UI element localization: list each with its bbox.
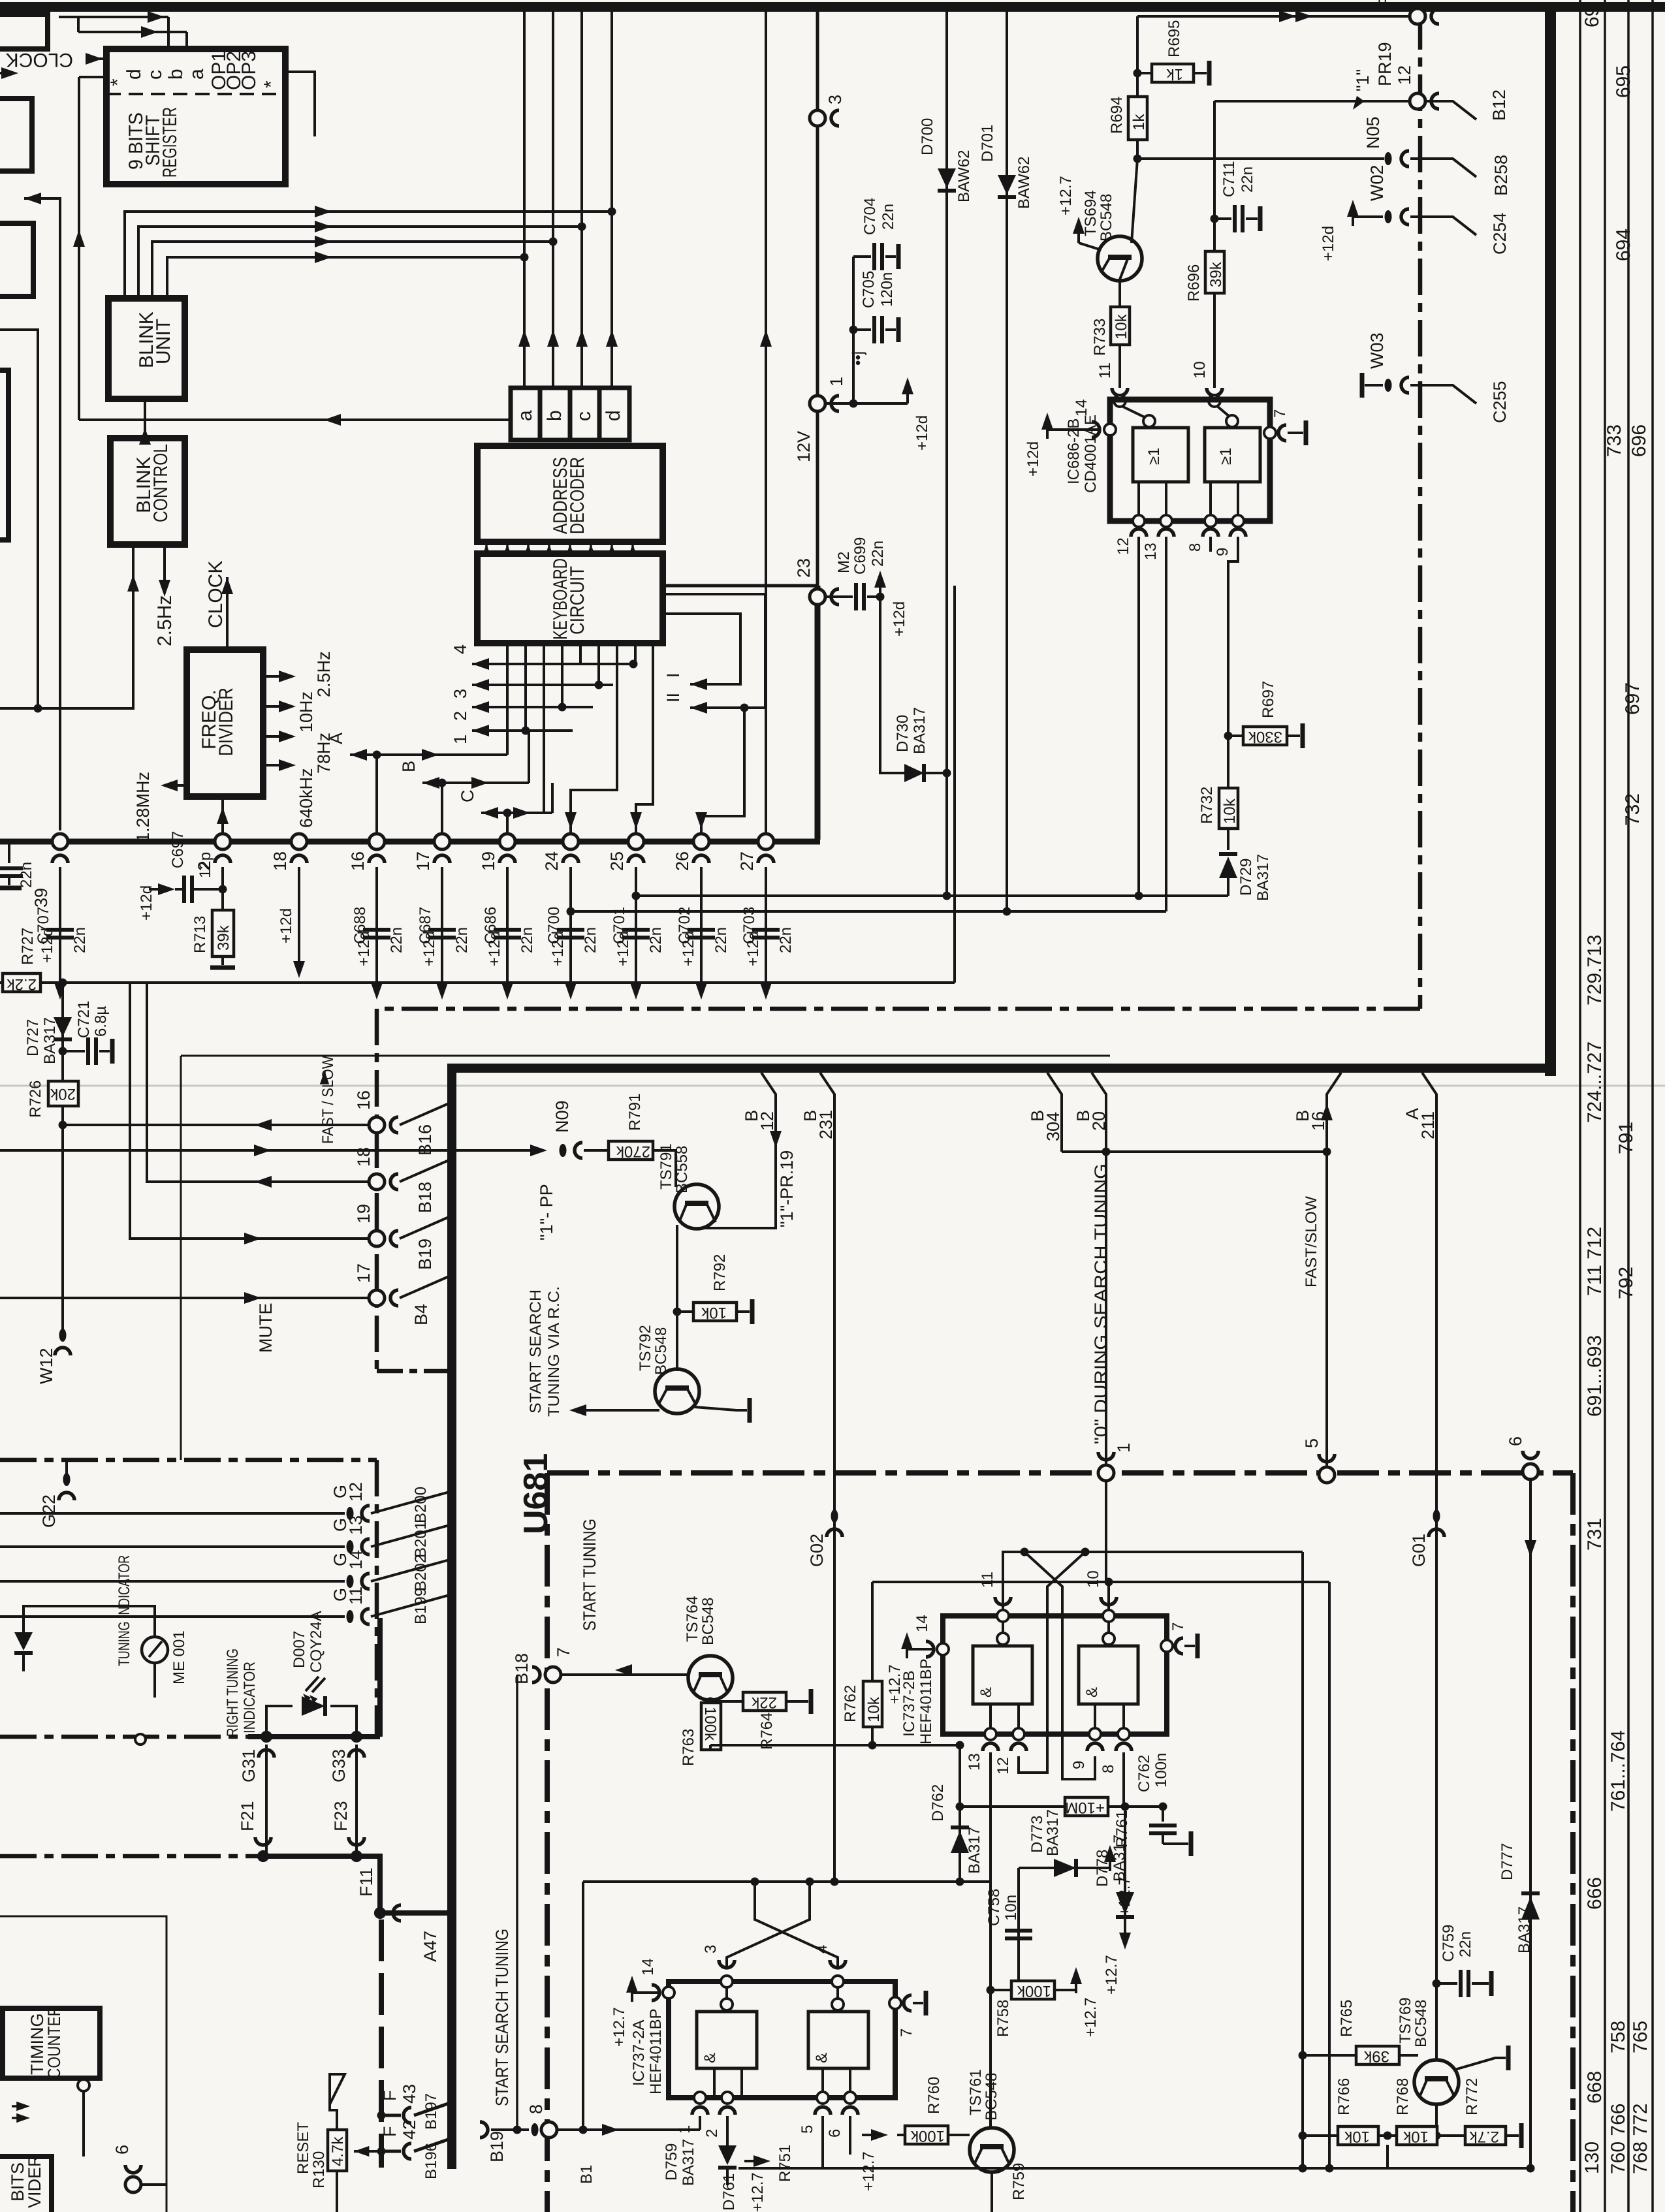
svg-text:22n: 22n — [1239, 166, 1256, 193]
svg-text:a: a — [515, 410, 536, 421]
connector F43 — [377, 2111, 386, 2120]
svg-text:696: 696 — [1628, 424, 1650, 457]
svg-text:DIVIDER: DIVIDER — [215, 687, 237, 756]
a line to top edge — [523, 12, 526, 388]
svg-text:+12.7: +12.7 — [1103, 1955, 1120, 1995]
svg-text:C707: C707 — [35, 907, 52, 944]
svg-text:*: * — [261, 80, 282, 88]
svg-text:BA317: BA317 — [911, 707, 928, 754]
svg-text:MUTE: MUTE — [256, 1303, 276, 1353]
svg-text:FAST / SLOW: FAST / SLOW — [319, 1056, 337, 1144]
svg-text:M2: M2 — [835, 552, 853, 573]
wire — [167, 17, 170, 49]
svg-text:BA317: BA317 — [966, 1827, 983, 1874]
svg-text:25: 25 — [607, 851, 627, 871]
pin 1 — [694, 2092, 706, 2104]
svg-text:12: 12 — [346, 1482, 366, 1502]
d line to top edge — [610, 12, 613, 388]
bits divider box (partial) — [0, 2157, 52, 2212]
blink unit box — [108, 298, 185, 399]
heavy wire F21-F23 — [263, 1854, 357, 1859]
module boundary dash-dot vertical x577 — [375, 1009, 379, 1373]
svg-text:TUNING VIA R.C.: TUNING VIA R.C. — [545, 1286, 563, 1417]
svg-text:REGISTER: REGISTER — [159, 107, 181, 178]
shift register U: 9 BITS SHIFT REGISTER — [106, 49, 285, 184]
svg-text:13: 13 — [966, 1753, 983, 1771]
svg-text:22n: 22n — [712, 927, 730, 953]
svg-text:2.2k: 2.2k — [7, 975, 37, 993]
key row 1 — [472, 729, 573, 732]
resistor R726 20k — [48, 1081, 78, 1106]
clock arrowhead — [86, 53, 103, 65]
svg-text:10k: 10k — [701, 1304, 727, 1321]
pin 9 — [1089, 1728, 1101, 1740]
wire G13 — [0, 1545, 345, 1548]
resistor R695 1k — [1137, 72, 1152, 74]
svg-text:130: 130 — [1581, 2141, 1603, 2174]
svg-text:≥1: ≥1 — [1145, 447, 1163, 465]
LED D007 CQY24A wire — [266, 1706, 293, 1737]
svg-text:D759: D759 — [663, 2143, 680, 2181]
connector G22 — [65, 1460, 68, 1474]
svg-text:8: 8 — [1100, 1765, 1117, 1773]
dual LED tuning indicator — [14, 1632, 33, 1651]
svg-text:7: 7 — [554, 1647, 573, 1657]
svg-text:R763: R763 — [680, 1729, 697, 1766]
wire — [152, 242, 553, 298]
emitter wire down — [676, 1225, 678, 1371]
svg-text:BC548: BC548 — [983, 2073, 1000, 2121]
svg-text:CQY24A: CQY24A — [308, 1611, 325, 1673]
svg-text:B18: B18 — [512, 1653, 531, 1684]
svg-text:4: 4 — [451, 644, 470, 654]
diode D701 BAW62 — [998, 175, 1016, 195]
svg-text:I: I — [663, 672, 683, 678]
svg-text:304: 304 — [1043, 1112, 1063, 1141]
module frame thin line — [181, 1055, 1110, 1057]
svg-text:D701: D701 — [979, 125, 996, 162]
border: top thick line — [0, 2, 1665, 12]
svg-text:7: 7 — [1271, 409, 1289, 418]
resistor R727 2.2k — [3, 973, 40, 992]
NAND gate 1 — [697, 2012, 757, 2068]
svg-text:B197: B197 — [422, 2093, 440, 2130]
capacitor C697 12p and R713 — [221, 867, 224, 910]
pin 11 riser and top rail — [1003, 1552, 1303, 1610]
svg-text:R733: R733 — [1091, 319, 1109, 356]
pin 14 +12.7 — [901, 1632, 913, 1658]
svg-text:+12.7: +12.7 — [749, 2172, 767, 2212]
svg-text:22k: 22k — [751, 1694, 777, 1711]
svg-text:2: 2 — [703, 2129, 721, 2138]
svg-text:724...727: 724...727 — [1584, 1041, 1606, 1123]
cross wire pin4 — [727, 1882, 810, 1967]
bottom rail y3321 — [738, 2167, 1529, 2170]
svg-text:12: 12 — [994, 1757, 1012, 1775]
capacitor C703 — [765, 867, 767, 975]
svg-text:UNIT: UNIT — [153, 319, 174, 364]
svg-text:F11: F11 — [357, 1867, 376, 1897]
svg-text:A47: A47 — [420, 1931, 440, 1962]
svg-text:B4: B4 — [411, 1304, 431, 1325]
svg-text:BC548: BC548 — [1098, 194, 1115, 242]
svg-text:+10M: +10M — [1065, 1799, 1105, 1816]
svg-text:R772: R772 — [1463, 2078, 1481, 2115]
resistor R791 270k — [584, 1149, 609, 1152]
svg-text:732: 732 — [1622, 793, 1643, 826]
svg-text:668: 668 — [1584, 2071, 1606, 2104]
svg-text:HEF4011BP: HEF4011BP — [917, 1658, 935, 1745]
NOR gate 1 — [1133, 428, 1188, 482]
wire into shift register top b — [78, 31, 187, 33]
svg-text:12V: 12V — [794, 431, 814, 462]
capacitor C704 22n — [853, 255, 871, 258]
svg-text:••j: ••j — [849, 351, 867, 366]
svg-text:9: 9 — [1214, 548, 1231, 556]
boundary dash-dot x577 down — [375, 1460, 379, 1737]
pin8 stub — [1209, 537, 1212, 552]
svg-text:1: 1 — [676, 2125, 693, 2134]
key row 4 — [472, 663, 633, 665]
pin 11 connector — [1112, 388, 1128, 396]
resistor R772 2.7k — [1437, 2134, 1465, 2137]
wire from B18 conn down to B19 node — [516, 1675, 518, 2130]
wire 17 MUTE — [0, 1297, 370, 1299]
blink control bottom-left wire — [0, 545, 133, 708]
svg-text:BA317: BA317 — [1254, 854, 1272, 901]
svg-text:270k: 270k — [616, 1143, 650, 1160]
svg-text:13: 13 — [1142, 543, 1160, 560]
svg-text:+12d: +12d — [138, 885, 155, 921]
svg-text:6.8µ: 6.8µ — [92, 1006, 110, 1037]
svg-text:TS769: TS769 — [1397, 1997, 1414, 2044]
svg-text:TS694: TS694 — [1082, 190, 1100, 236]
counter output pin — [78, 2079, 89, 2091]
connector 1 (12V) — [810, 396, 825, 411]
svg-text:+12.7: +12.7 — [1116, 1876, 1134, 1916]
wire — [167, 257, 524, 298]
bus connector 16 — [369, 834, 385, 849]
freq divider box — [187, 650, 263, 797]
svg-text:22n: 22n — [869, 541, 887, 567]
svg-text:39k: 39k — [215, 924, 232, 951]
diode D777 BA317 — [1521, 1897, 1540, 1920]
wire top to conn5 with double arrow — [1137, 15, 1410, 18]
ruling column line 2 — [1604, 0, 1606, 2212]
gate output wires — [713, 2068, 716, 2098]
wire C to bus 19 — [506, 813, 509, 834]
R696 / PR19 line — [1214, 100, 1410, 103]
svg-text:W12: W12 — [37, 1348, 56, 1384]
emitter ground — [694, 1407, 747, 1410]
wire G12 — [0, 1512, 345, 1515]
wire 19 — [130, 983, 370, 1239]
long vertical from cross rail — [1328, 1582, 1331, 2168]
thick segment to bus — [815, 586, 821, 840]
svg-text:D007: D007 — [291, 1631, 308, 1668]
svg-text:+12.7: +12.7 — [1082, 1997, 1100, 2037]
svg-text:+12.7: +12.7 — [860, 2151, 878, 2191]
wire G11 — [0, 1615, 345, 1618]
address decoder box — [477, 446, 663, 542]
base feed wire y2673 — [710, 1744, 960, 1746]
arrows between blocks — [16, 2102, 30, 2111]
svg-text:B202: B202 — [412, 1555, 430, 1591]
wire y1378 — [636, 894, 1228, 897]
svg-text:R732: R732 — [1198, 787, 1216, 824]
capacitor C701 — [635, 867, 637, 975]
wire up to C704/C705 — [852, 257, 855, 403]
bus connector 26 — [693, 834, 709, 849]
cap C706 at left edge — [8, 842, 10, 863]
svg-text:22n: 22n — [518, 927, 536, 953]
svg-text:D729: D729 — [1237, 859, 1255, 896]
pin 9 — [1232, 515, 1244, 527]
svg-text:D773: D773 — [1028, 1816, 1046, 1853]
transistor TS764 BC548 — [688, 1656, 733, 1700]
ruling column line 1 — [1579, 0, 1581, 2212]
svg-text:R766: R766 — [1335, 2078, 1353, 2115]
svg-text:120n: 120n — [878, 272, 896, 307]
connector G01 — [1433, 1509, 1440, 1523]
svg-text:b: b — [165, 69, 187, 80]
gate output wires — [989, 1704, 992, 1734]
svg-text:R130: R130 — [310, 2151, 328, 2188]
svg-text:IC686-2B: IC686-2B — [1065, 419, 1083, 484]
svg-text:3: 3 — [451, 689, 470, 699]
svg-text:10k: 10k — [865, 1696, 883, 1722]
svg-text:+12d: +12d — [913, 415, 931, 450]
blink control bottom 2.5Hz output — [163, 545, 166, 586]
sub-module thin frame — [0, 1916, 166, 2212]
blink unit bottom stub — [144, 399, 146, 420]
pin 5 — [817, 2092, 829, 2104]
ruling column line 4 — [1651, 0, 1654, 2212]
blink control box — [110, 438, 185, 545]
box (partial, top left corner) — [0, 14, 48, 49]
svg-text:G31: G31 — [239, 1749, 259, 1782]
svg-text:10Hz: 10Hz — [296, 691, 316, 733]
diode D773 BA317 — [1019, 1867, 1110, 1869]
connector 12 — [1410, 93, 1425, 109]
wire conn6 down — [1529, 1479, 1532, 2168]
svg-text:R727: R727 — [19, 928, 37, 965]
svg-text:BC558: BC558 — [673, 1146, 691, 1193]
svg-text:10: 10 — [1191, 361, 1209, 379]
connector G31 — [261, 1731, 272, 1743]
boundary dash-dot y2660 — [0, 1735, 380, 1739]
diode D762 BA317 — [959, 1745, 961, 1882]
meter ME 001 — [142, 1637, 168, 1663]
drop B20 to U681 pin1 — [1092, 1073, 1106, 1466]
resistor R763 100k — [701, 1703, 721, 1750]
NAND gate 1 — [973, 1646, 1032, 1704]
pin 10 riser — [1107, 1582, 1110, 1610]
svg-text:43: 43 — [400, 2084, 419, 2104]
capacitor C699 22n — [825, 595, 853, 598]
svg-text:9: 9 — [1070, 1761, 1088, 1769]
svg-text:C688: C688 — [351, 907, 369, 944]
conn1 wire joins rail — [1105, 1480, 1107, 1582]
svg-text:22n: 22n — [388, 927, 405, 953]
svg-text:10k: 10k — [1113, 313, 1130, 340]
wire vertical x121 with up arrow — [79, 76, 106, 78]
svg-text:G22: G22 — [39, 1494, 59, 1528]
+12d rail wire — [0, 981, 955, 984]
wire conn12 to cable B12 — [1425, 101, 1476, 119]
matrix column wires from keyboard bottom — [506, 643, 509, 755]
c line to top edge — [580, 12, 583, 388]
resistor R732 10k — [1219, 788, 1238, 829]
svg-text:39k: 39k — [1207, 261, 1225, 287]
resistor R762 10k — [871, 1582, 874, 1681]
IC737-2A box — [669, 1982, 895, 2098]
D701 line from top — [1006, 12, 1008, 911]
cross wire pin3 — [755, 1882, 838, 1967]
svg-text:695: 695 — [1613, 65, 1634, 98]
svg-text:C758: C758 — [985, 1889, 1003, 1926]
resistor R760 100k — [862, 2129, 888, 2141]
pin 12 — [1013, 1728, 1024, 1740]
connector F11 — [374, 1907, 386, 1919]
svg-text:B: B — [399, 761, 419, 772]
svg-text:6: 6 — [826, 2129, 844, 2138]
wire 18 to +12d — [298, 867, 300, 953]
svg-text:C762: C762 — [1135, 1755, 1153, 1792]
connector W02 with +12d — [1347, 200, 1359, 226]
svg-text:C721: C721 — [75, 1001, 93, 1038]
wire B to bus 17 — [441, 783, 443, 834]
base wire into pin1 — [583, 2128, 700, 2131]
wire y1764 mute/fastslow feed — [0, 1149, 542, 1152]
svg-text:1: 1 — [1114, 1443, 1134, 1453]
svg-text:II: II — [663, 693, 683, 703]
svg-text:D762: D762 — [929, 1784, 947, 1822]
resistor R697 330k — [1224, 732, 1233, 740]
svg-text:100k: 100k — [1017, 1982, 1051, 2000]
transistor TS791 BC558 — [674, 1184, 719, 1229]
RESET flag — [330, 2074, 345, 2104]
CLOCK output of freq divider — [226, 577, 229, 650]
resistor R761 +10M — [960, 1805, 1065, 1808]
wire with arrow from left edge — [0, 72, 12, 74]
svg-text:23: 23 — [794, 558, 814, 578]
drop B16 FAST/SLOW to conn5(U681) — [1327, 1073, 1341, 1468]
svg-text:+12d: +12d — [1320, 226, 1337, 261]
module boundary dash-dot vertical x2175 — [1418, 13, 1423, 1009]
svg-text:16: 16 — [1308, 1111, 1328, 1131]
svg-text:&: & — [701, 2053, 719, 2063]
svg-text:B258: B258 — [1491, 155, 1511, 196]
svg-text:22n: 22n — [1457, 1931, 1474, 1957]
svg-text:1: 1 — [827, 377, 846, 387]
svg-text:G33: G33 — [329, 1749, 349, 1782]
svg-text:18: 18 — [354, 1147, 373, 1167]
svg-text:IC737-2A: IC737-2A — [630, 2020, 648, 2086]
module boundary dash-dot horizontal y1545 — [377, 1007, 1420, 1011]
wire — [138, 227, 582, 298]
1.28MHz output left — [166, 784, 187, 787]
key group line I — [663, 614, 740, 684]
transistor TS694 BC548 — [1098, 236, 1142, 281]
svg-text:RESET: RESET — [294, 2122, 312, 2174]
svg-text:R713: R713 — [191, 916, 209, 953]
svg-text:TS792: TS792 — [637, 1325, 654, 1371]
svg-text:R792: R792 — [711, 1254, 729, 1291]
resistor R130 4.7k — [328, 2130, 347, 2171]
svg-text:+12.7: +12.7 — [886, 1664, 904, 1704]
gate output wires — [1137, 482, 1140, 521]
svg-text:+12d: +12d — [1024, 441, 1042, 477]
svg-text:OP3: OP3 — [238, 51, 260, 90]
capacitor C758 10n — [1017, 1868, 1020, 1990]
svg-text:7: 7 — [898, 2029, 915, 2037]
resistor R758 100k — [987, 1986, 995, 1995]
key group line II — [663, 594, 765, 708]
heavy wire G31-G33 segment — [248, 1734, 380, 1739]
pin 8 — [1118, 1728, 1130, 1740]
svg-text:22n: 22n — [880, 204, 897, 230]
svg-text:11: 11 — [979, 1572, 996, 1588]
svg-text:13: 13 — [346, 1515, 366, 1535]
svg-text:N05: N05 — [1363, 116, 1383, 149]
svg-text:B19: B19 — [415, 1239, 435, 1270]
svg-text:14: 14 — [346, 1550, 366, 1570]
svg-text:R758: R758 — [994, 2000, 1012, 2037]
capacitor C759 22n — [1436, 1982, 1457, 1985]
pin9 wire to R732/R697 chain — [1228, 537, 1238, 788]
svg-text:697: 697 — [1622, 682, 1643, 715]
svg-text:R791: R791 — [626, 1094, 644, 1131]
svg-text:+12d: +12d — [277, 908, 295, 943]
svg-text:69: 69 — [1581, 6, 1603, 27]
svg-text:5: 5 — [799, 2125, 816, 2134]
hooks pins 11/10 — [995, 1597, 1011, 1605]
cross wire B (pin9 to rail) — [1024, 1552, 1095, 1779]
svg-text:CONTROL: CONTROL — [150, 444, 172, 522]
svg-text:10n: 10n — [1002, 1895, 1020, 1921]
resistor R694 1k — [1136, 73, 1139, 97]
svg-text:4: 4 — [813, 1945, 831, 1953]
transistor TS769 BC548 — [1414, 2060, 1459, 2104]
svg-text:R696: R696 — [1185, 264, 1203, 302]
svg-text:≥1: ≥1 — [1217, 447, 1235, 465]
svg-text:691...693: 691...693 — [1584, 1335, 1606, 1417]
svg-text:27: 27 — [737, 851, 757, 871]
svg-text:F23: F23 — [331, 1801, 351, 1831]
svg-text:2.7k: 2.7k — [1469, 2128, 1499, 2145]
12V distribution line x1252 — [816, 12, 819, 586]
svg-text:1k: 1k — [1166, 65, 1183, 83]
freq divider bottom stub to bus — [221, 797, 224, 834]
bus connector 18 — [291, 834, 307, 849]
svg-text:R760: R760 — [925, 2077, 943, 2114]
connector 5 on boundary — [1319, 1467, 1335, 1483]
svg-text:F21: F21 — [238, 1801, 257, 1831]
svg-text:C759: C759 — [1440, 1925, 1457, 1962]
svg-text:R694: R694 — [1108, 97, 1126, 134]
collector wire to PR19 drop — [698, 1227, 776, 1229]
pin12 wire to y1378 — [1137, 537, 1140, 896]
connector F42 — [377, 2147, 386, 2156]
pin 6 — [844, 2092, 856, 2104]
capacitor C711 22n — [1211, 215, 1219, 223]
net index numbers (right margin) — [1581, 6, 1651, 2174]
bus connector 39 — [52, 834, 68, 849]
boundary dash-dot y2843 F row — [0, 1854, 357, 1859]
svg-text:F: F — [380, 2091, 400, 2102]
long vertical from IC737-2B pin11 rail — [1301, 1552, 1304, 2168]
